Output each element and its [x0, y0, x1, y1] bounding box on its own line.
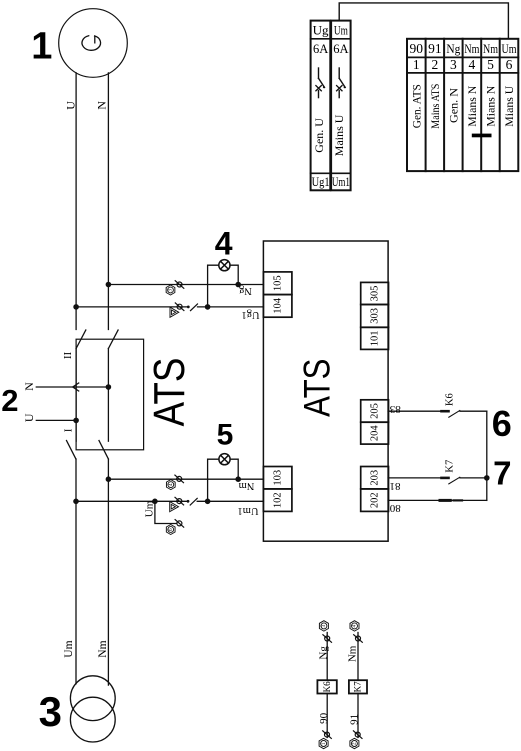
connector circle on Nm [175, 475, 184, 483]
svg-text:Nm: Nm [97, 640, 109, 657]
terminal 205 [361, 400, 389, 422]
svg-text:K7: K7 [353, 681, 363, 692]
svg-text:U: U [64, 101, 78, 110]
svg-text:101: 101 [370, 331, 381, 347]
svg-text:303: 303 [370, 308, 381, 324]
connector circle coil K7 top [354, 635, 363, 643]
wire coil K7 top [357, 633, 359, 681]
svg-text:90: 90 [410, 41, 424, 56]
transformer T1 [70, 676, 115, 742]
node Ng tap [106, 282, 112, 288]
svg-text:103: 103 [272, 470, 283, 486]
svg-text:6A: 6A [333, 42, 348, 56]
svg-text:2: 2 [1, 383, 18, 418]
svg-text:Ng: Ng [446, 41, 460, 56]
svg-text:91: 91 [428, 41, 442, 56]
node K6/K7 bus junction [484, 475, 490, 481]
svg-text:Nm: Nm [483, 41, 498, 56]
svg-text:Ug1: Ug1 [241, 309, 259, 320]
contact K6 [442, 411, 460, 418]
connector circle on Ug1 [175, 303, 184, 311]
svg-text:Mians N: Mians N [465, 85, 479, 126]
lamp HL2 [208, 454, 239, 502]
terminal block table [407, 39, 518, 171]
wire gen U [75, 73, 77, 330]
svg-text:Um: Um [502, 41, 517, 56]
wire Ug1 [76, 306, 263, 308]
node lamp4 right leg junction [235, 282, 241, 288]
svg-text:305: 305 [370, 286, 381, 302]
generator G1 [59, 9, 128, 78]
wire Um strip to terminal table [339, 3, 508, 39]
wire terminal 80 [388, 499, 487, 501]
terminal 101 [361, 327, 389, 349]
svg-text:Mians N: Mians N [484, 85, 498, 126]
svg-text:Ug: Ug [313, 22, 329, 37]
svg-text:ATS: ATS [144, 358, 194, 427]
ATS controller block [263, 241, 388, 541]
connector circle coil K6 bottom [323, 731, 332, 739]
node lamp5 left leg junction [205, 499, 211, 505]
svg-text:Nm: Nm [239, 480, 255, 491]
svg-text:K6: K6 [322, 681, 332, 692]
switch blade gen U [76, 330, 86, 349]
svg-text:I: I [62, 428, 74, 432]
switch blade gen N [108, 330, 118, 349]
svg-text:Um: Um [63, 640, 75, 657]
terminal 104 [263, 295, 292, 318]
svg-text:2: 2 [432, 57, 439, 72]
svg-text:5: 5 [487, 57, 494, 72]
svg-text:Nm: Nm [464, 41, 479, 56]
wire coil K6 bottom [326, 694, 328, 738]
svg-text:80: 80 [389, 502, 401, 514]
svg-text:N: N [95, 101, 109, 110]
svg-text:81: 81 [390, 480, 401, 492]
fuse Ug [311, 21, 331, 191]
svg-text:105: 105 [272, 275, 283, 291]
svg-text:7: 7 [493, 454, 511, 491]
svg-text:Ng: Ng [318, 646, 330, 660]
svg-text:6A: 6A [313, 42, 328, 56]
svg-text:U: U [22, 413, 36, 422]
svg-text:3: 3 [450, 57, 457, 72]
connector circle on Um1 [175, 497, 184, 505]
connector circle on Ng [175, 281, 184, 289]
svg-text:Um1: Um1 [332, 174, 350, 189]
svg-text:91: 91 [348, 714, 360, 725]
hexagon tag 4 (coil K7 top) [350, 621, 359, 631]
wire terminal 83 to K6 contact [388, 411, 487, 500]
svg-text:204: 204 [370, 425, 381, 442]
svg-text:1: 1 [413, 57, 420, 72]
triangle tag (Ug1) [170, 307, 179, 317]
relay coil K6 [317, 680, 336, 693]
terminal 105 [263, 272, 292, 295]
wire Um1 [76, 500, 263, 502]
svg-text:Um1: Um1 [238, 505, 259, 516]
svg-text:83: 83 [389, 403, 401, 415]
svg-text:203: 203 [370, 470, 381, 486]
wire Nm [108, 478, 263, 480]
wire N inside box [107, 349, 109, 442]
svg-text:6: 6 [492, 403, 512, 444]
svg-text:1: 1 [31, 26, 52, 68]
wire coil K7 bottom [357, 694, 359, 738]
svg-text:3: 3 [321, 624, 327, 627]
svg-text:205: 205 [370, 403, 381, 419]
terminal 102 [263, 489, 292, 512]
terminal 202 [361, 489, 389, 512]
hexagon tag 4 (Nm) [166, 480, 175, 490]
hexagon tag 3 (Ng) [166, 285, 175, 295]
branch wire to spare tag [155, 501, 177, 523]
node N output tap [106, 384, 112, 390]
connector circle coil K7 bottom [353, 731, 362, 739]
wire U inside box [75, 349, 77, 442]
arrow on N output [73, 383, 79, 391]
terminal 204 [361, 422, 389, 444]
jumper bar between Nm terminals [472, 134, 492, 138]
triangle tag (Um1) [170, 502, 179, 512]
switch on Ug1 [187, 304, 198, 311]
wire gen N [107, 73, 109, 330]
hexagon tag 2 (coil K7 bottom) [350, 738, 359, 748]
node Nm tap [106, 476, 112, 482]
terminal 305 [361, 282, 389, 304]
switch on Um1 [187, 498, 198, 505]
svg-text:202: 202 [370, 492, 381, 508]
wire N output [36, 386, 108, 388]
contact K7 [442, 477, 460, 484]
svg-text:102: 102 [272, 492, 283, 508]
svg-text:4: 4 [352, 624, 358, 627]
terminal 203 [361, 467, 389, 489]
svg-text:Mians U: Mians U [502, 85, 516, 126]
wire mains U [75, 459, 77, 684]
ATS changeover switch S1 box [76, 339, 144, 450]
svg-text:N: N [22, 382, 36, 391]
svg-text:4: 4 [469, 57, 476, 72]
relay coil K7 [349, 680, 367, 693]
node branch tap on Um1 [152, 499, 158, 505]
wire Ng [108, 284, 263, 286]
tick marks on wire 80 [440, 499, 462, 502]
hexagon tag 6 (branch) [166, 525, 175, 535]
switch blade mains N [99, 441, 108, 460]
svg-text:K6: K6 [444, 393, 455, 406]
switch blade mains U [67, 441, 76, 460]
svg-text:104: 104 [272, 297, 283, 314]
svg-text:Mains ATS: Mains ATS [428, 84, 442, 129]
svg-text:K7: K7 [444, 460, 455, 473]
svg-text:90: 90 [318, 712, 330, 724]
connector circle coil K6 top [323, 635, 332, 643]
svg-text:6: 6 [168, 528, 174, 531]
lamp HL1 [208, 260, 239, 307]
svg-text:Um: Um [334, 22, 348, 37]
svg-text:Mains U: Mains U [332, 114, 346, 156]
svg-text:ATS: ATS [297, 359, 338, 417]
wire U output [36, 419, 76, 421]
svg-text:Ng: Ng [238, 285, 252, 296]
fuse Um [331, 21, 351, 191]
svg-text:3: 3 [39, 688, 62, 735]
svg-text:4: 4 [168, 483, 174, 486]
wire coil K6 top [326, 633, 328, 681]
svg-text:3: 3 [168, 289, 174, 292]
node Um1 tap [73, 499, 79, 505]
terminal 303 [361, 305, 389, 328]
svg-text:Gen. U: Gen. U [312, 118, 326, 153]
svg-text:Gen. N: Gen. N [446, 88, 460, 123]
svg-text:4: 4 [215, 226, 233, 262]
svg-text:6: 6 [506, 57, 513, 72]
wire terminal 81 to K7 contact [388, 477, 487, 479]
svg-text:Um: Um [144, 500, 156, 517]
svg-text:2: 2 [352, 742, 358, 745]
node lamp4 left leg junction [205, 304, 211, 310]
svg-text:1: 1 [321, 742, 327, 745]
hexagon tag 1 (coil K6 bottom) [319, 738, 328, 748]
node U output tap [73, 418, 79, 424]
wire mains N [107, 459, 109, 685]
svg-text:Ug1: Ug1 [312, 174, 330, 189]
hexagon tag 3 (coil K6 top) [319, 621, 328, 631]
svg-text:II: II [62, 352, 74, 360]
node Ug1 tap [73, 304, 79, 310]
node lamp5 right leg junction [235, 476, 241, 482]
svg-text:Nm: Nm [347, 645, 359, 662]
svg-text:5: 5 [217, 419, 234, 452]
terminal 103 [263, 467, 292, 489]
svg-text:Gen. ATS: Gen. ATS [409, 84, 423, 128]
connector circle on branch [175, 520, 184, 528]
